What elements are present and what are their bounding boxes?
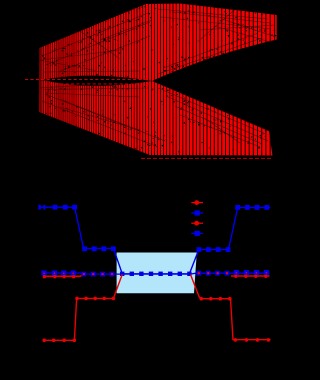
interface chain: right red line — [231, 275, 270, 277]
red lower chain: mid-right circles — [200, 297, 232, 301]
legend sample 4: blue line+square — [191, 231, 203, 236]
baseline dashed red line under lower arm — [141, 157, 271, 159]
blue upper chain: left mid row squares — [82, 246, 116, 251]
red lower chain: mid-left circles — [75, 297, 115, 301]
interface chain: left red line — [43, 274, 84, 276]
red lower chain: polyline — [43, 274, 271, 340]
FE mesh silhouette (red pac-man specimen) — [39, 4, 276, 156]
interface chain: squares inside fault region — [120, 272, 192, 276]
blue upper chain: right top row squares — [235, 205, 269, 210]
interface chain: right big blue squares with red markers — [234, 270, 269, 278]
mesh node speckles — [41, 2, 276, 156]
interface chain: left merged purple squares — [81, 272, 114, 277]
interface chain: blue line — [43, 273, 269, 274]
legend sample 3: red line+circle — [191, 221, 203, 226]
mesh streaks near notch edges — [40, 2, 276, 147]
blue upper chain: left row squares — [38, 205, 77, 210]
red lower chain: bottom-left circles — [42, 339, 76, 343]
blue upper chain: right mid row squares — [196, 247, 230, 252]
legend sample 1: red line+circle — [191, 200, 203, 205]
blue upper chain: polyline — [39, 207, 271, 274]
legend sample 2: blue line+square — [191, 210, 203, 215]
mesh vertical grid lines — [40, 0, 42, 170]
interface chain: right merged purple squares — [196, 271, 229, 276]
crack face dash-dot line lower — [44, 83, 150, 85]
interface chain: left big blue squares with red markers — [41, 270, 75, 278]
mesh radial grid lines (fan from notch tip) — [39, 10, 269, 144]
crack face dash-dot line upper — [25, 78, 151, 80]
crack opening (black lens) — [42, 76, 152, 86]
stacking-fault region (light blue fill) — [117, 253, 197, 294]
red lower chain: bottom-right circles — [234, 338, 271, 342]
